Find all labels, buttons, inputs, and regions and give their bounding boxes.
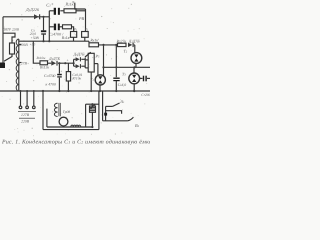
svg-text:П1: П1 (119, 100, 125, 104)
svg-text:В1: В1 (135, 123, 140, 128)
svg-text:127В: 127В (19, 61, 28, 65)
svg-text:R41к: R41к (89, 38, 98, 43)
svg-text:R613к: R613к (39, 65, 49, 69)
svg-text:к 4700: к 4700 (46, 82, 56, 86)
svg-text:Р1: Р1 (73, 28, 78, 32)
svg-text:220В: 220В (21, 120, 30, 124)
svg-text:+: + (66, 58, 69, 63)
svg-text:С34700: С34700 (44, 74, 56, 78)
svg-text:220В: 220В (20, 43, 29, 47)
svg-text:Рис. 1. Конденсаторы С1 и С2 и: Рис. 1. Конденсаторы С1 и С2 имеют одина… (1, 138, 150, 145)
svg-text:Т2: Т2 (124, 49, 128, 54)
svg-text:Д3Д7Б: Д3Д7Б (48, 56, 60, 61)
svg-text:R31к: R31к (61, 35, 70, 40)
svg-text:ЛЯТР 220В: ЛЯТР 220В (2, 27, 20, 31)
svg-text:+: + (60, 70, 63, 74)
svg-text:Д1Д226: Д1Д226 (25, 7, 40, 12)
svg-text:Т3: Т3 (122, 72, 126, 77)
svg-text:+50В: +50В (30, 36, 39, 40)
svg-text:Д4Д7Б: Д4Д7Б (73, 52, 85, 57)
svg-text:R527к: R527к (116, 38, 127, 43)
svg-text:Т1: Т1 (90, 77, 94, 82)
svg-text:R710к: R710к (71, 77, 81, 81)
svg-text:R610м: R610м (36, 56, 47, 60)
svg-text:Д2Д7Б: Д2Д7Б (128, 38, 140, 43)
svg-text:С64,0: С64,0 (118, 83, 127, 87)
svg-text:Р5: Р5 (95, 53, 100, 58)
svg-text:Тр08: Тр08 (63, 110, 71, 114)
svg-text:+50: +50 (30, 42, 36, 46)
svg-text:РВ: РВ (78, 16, 85, 21)
svg-text:С7200: С7200 (141, 93, 150, 97)
svg-text:127В: 127В (21, 113, 30, 117)
svg-text:Р2: Р2 (84, 28, 89, 32)
svg-text:С1+: С1+ (46, 2, 53, 8)
